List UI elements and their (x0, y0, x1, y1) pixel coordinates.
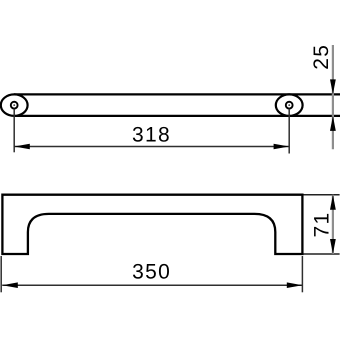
svg-text:25: 25 (310, 44, 333, 70)
svg-text:350: 350 (132, 261, 171, 284)
svg-text:71: 71 (310, 212, 333, 238)
svg-text:318: 318 (132, 124, 171, 147)
